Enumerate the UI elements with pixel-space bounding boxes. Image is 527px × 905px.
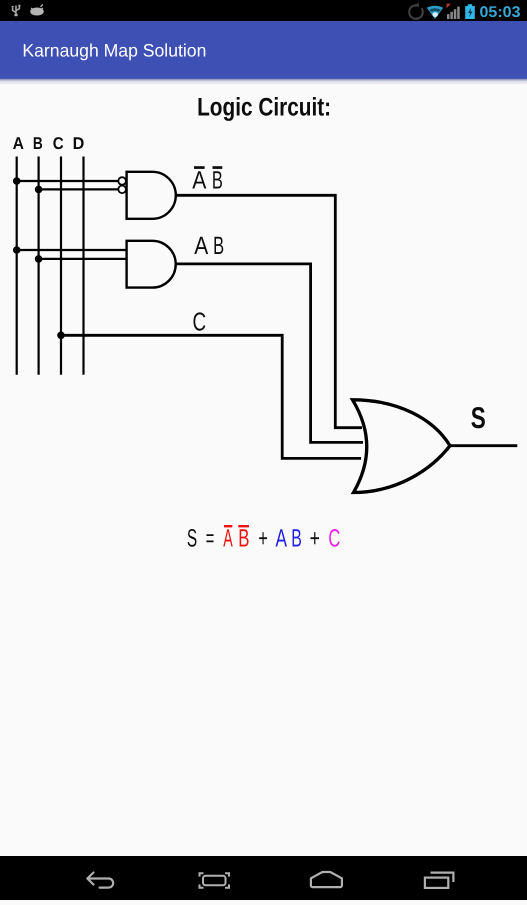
svg-text:B: B [238, 525, 249, 553]
wire B to gate G1 bubble [39, 188, 119, 190]
input label B [33, 134, 43, 153]
svg-text:=: = [206, 525, 215, 553]
clock text 05:03 [480, 4, 521, 21]
navigation bar [0, 856, 527, 900]
input label C [53, 134, 64, 153]
svg-text:Karnaugh Map Solution: Karnaugh Map Solution [22, 40, 206, 60]
status bar [0, 0, 527, 21]
junction dot B1 [35, 186, 43, 194]
AND gate G2 [127, 241, 176, 288]
svg-text:C: C [328, 525, 340, 553]
svg-text:A: A [13, 134, 24, 153]
formula equals sign [206, 525, 215, 553]
input line A [16, 157, 18, 375]
wire G1 output to OR gate [176, 195, 362, 427]
svg-text:S: S [187, 525, 197, 553]
svg-text:Logic Circuit:: Logic Circuit: [197, 94, 331, 122]
input label A [13, 134, 24, 153]
junction dot A2 [13, 246, 21, 254]
label C on wire [193, 306, 207, 336]
usb icon [12, 5, 21, 15]
formula magenta C [328, 525, 340, 553]
formula S term [187, 525, 197, 553]
heading Logic Circuit: [197, 94, 331, 122]
svg-text:B: B [213, 232, 224, 260]
screenshot button [200, 873, 230, 888]
input line B [37, 157, 39, 375]
label B on G2 [213, 232, 224, 260]
signal icon [447, 4, 460, 19]
junction dot C1 [57, 332, 65, 340]
svg-text:C: C [53, 134, 64, 153]
back button [87, 873, 113, 888]
formula blue A [276, 525, 288, 553]
formula red Abar [223, 525, 233, 553]
inverter bubble G1 input 2 [118, 186, 126, 194]
input line D [82, 157, 84, 375]
svg-text:S: S [471, 402, 486, 435]
formula plus sign 1 [258, 525, 267, 553]
junction dot B2 [35, 255, 43, 263]
debug icon [30, 4, 44, 15]
AND gate G1 [127, 172, 176, 219]
formula blue B [291, 525, 302, 553]
inverter bubble G1 input 1 [118, 177, 126, 185]
recents button [425, 873, 454, 888]
formula red Bbar [238, 525, 249, 553]
wire G2 output to OR gate [176, 264, 363, 443]
svg-text:+: + [310, 525, 320, 553]
wire B to gate G2 [39, 258, 127, 260]
svg-text:A: A [223, 525, 233, 553]
label S [471, 402, 486, 435]
home button [311, 872, 342, 887]
title bar [0, 21, 527, 79]
svg-text:A: A [192, 167, 206, 195]
app title text [22, 40, 206, 60]
sync icon [409, 2, 423, 19]
input line C [60, 157, 62, 375]
svg-text:A: A [194, 232, 208, 260]
battery icon [465, 4, 475, 19]
OR gate G3 [353, 400, 451, 493]
svg-text:C: C [193, 306, 207, 336]
svg-text:D: D [73, 134, 85, 153]
svg-text:+: + [258, 525, 267, 553]
wire A to gate G1 bubble [17, 180, 119, 182]
input label D [73, 134, 85, 153]
wire S output [450, 444, 517, 447]
junction dot A1 [13, 177, 21, 185]
wire C to OR gate [61, 335, 361, 458]
formula plus sign 2 [310, 525, 320, 553]
wire A to gate G2 [17, 249, 127, 251]
label A on G2 [194, 232, 208, 260]
svg-text:B: B [291, 525, 302, 553]
svg-text:A: A [276, 525, 288, 553]
label Abar on G1 [192, 166, 206, 195]
label Bbar on G1 [212, 166, 223, 195]
svg-text:B: B [212, 167, 223, 195]
wifi icon [427, 6, 443, 19]
svg-text:B: B [33, 134, 43, 153]
